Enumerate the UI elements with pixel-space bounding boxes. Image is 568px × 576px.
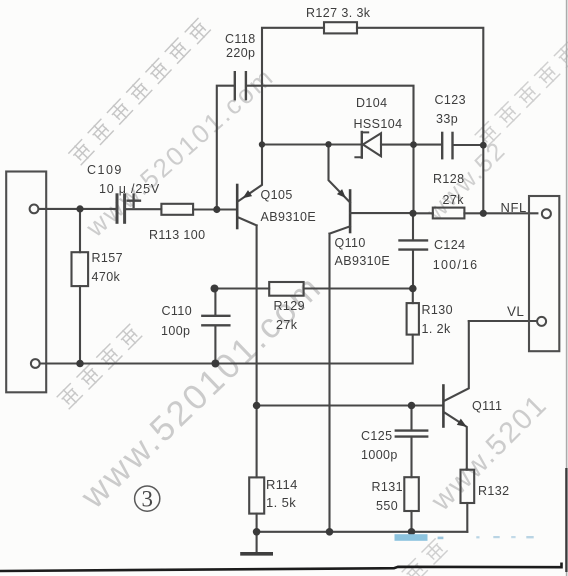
svg-text:550: 550 [376, 499, 398, 513]
wire: C118 right to drop at x413 down to diode row [247, 86, 413, 145]
page number circled 3 [135, 486, 160, 511]
svg-text:R131: R131 [372, 480, 403, 494]
transistor Q111 emitter arrow [457, 419, 467, 427]
resistor R128 [433, 208, 465, 219]
wire: R128 to NFL node to pad [464, 212, 537, 214]
junction node dots [76, 141, 487, 535]
svg-text:33p: 33p [436, 112, 458, 126]
svg-text:C123: C123 [435, 93, 466, 107]
svg-text:C110: C110 [162, 304, 193, 318]
wire: C118 branch riser (base node up to C118 row) [217, 86, 234, 210]
wire: R130 bottom to y363 row going left to pad [40, 335, 413, 364]
capacitor C123 [441, 133, 443, 158]
svg-text:R128: R128 [433, 172, 464, 186]
wire: R129 row [215, 287, 413, 289]
wire: R157 column [79, 209, 81, 364]
wire: C125 column [410, 406, 412, 478]
wire: R132 down to ground row corner [466, 503, 468, 532]
svg-text:C124: C124 [434, 238, 465, 252]
svg-text:220p: 220p [226, 46, 255, 60]
capacitor C118 [234, 72, 236, 99]
diode D104 [361, 132, 363, 158]
capacitor C125 [396, 429, 427, 431]
watermark: top-right 维修资料 partial [474, 41, 568, 148]
node: C125 top / Q111 base [408, 402, 416, 410]
svg-text:R127 3. 3k: R127 3. 3k [306, 6, 371, 20]
ground [256, 532, 258, 553]
wire: Q105 collector column down through R114 to ground row [256, 225, 258, 531]
node: Q110 emitter/diode row [325, 141, 331, 147]
svg-text:1000p: 1000p [361, 448, 398, 462]
pad: NFL [542, 209, 551, 218]
scan artifact: right page edge line [566, 0, 568, 576]
transistor Q111 [442, 386, 445, 427]
svg-text:100/16: 100/16 [433, 258, 478, 272]
svg-text:27k: 27k [276, 318, 298, 332]
svg-text:R132: R132 [478, 484, 509, 498]
svg-text:470k: 470k [92, 270, 121, 284]
resistor R114 [249, 477, 264, 513]
svg-text:100p: 100p [161, 324, 190, 338]
svg-text:R114: R114 [266, 477, 298, 492]
wire: VL row to pad [469, 320, 537, 322]
svg-text:AB9310E: AB9310E [335, 254, 391, 268]
pad: left connector top [30, 205, 39, 214]
svg-text:D104: D104 [356, 96, 387, 110]
resistor R131 [404, 477, 419, 511]
wire: Q110 collector column down to ground row [328, 234, 330, 532]
wire: junction to C123 [414, 144, 442, 146]
capacitor C110 [202, 315, 229, 317]
node: R129 row right [409, 285, 417, 293]
svg-text:1. 5k: 1. 5k [266, 495, 296, 510]
svg-text:R157: R157 [92, 251, 123, 265]
wire: R113 to Q105 base [193, 208, 236, 210]
svg-text:C109: C109 [87, 163, 123, 177]
svg-text:HSS104: HSS104 [354, 117, 403, 131]
watermark: left 家电维修 partial [56, 323, 143, 410]
svg-text:Q110: Q110 [335, 236, 366, 250]
scan artifact: cyan highlight bar [395, 534, 428, 541]
node: NFL [480, 210, 487, 217]
node: C123 right [480, 142, 487, 149]
node: ground row left [253, 528, 261, 536]
resistor R132 [461, 470, 475, 503]
wire: C123 to x483 node [454, 144, 484, 146]
svg-text:C125: C125 [361, 429, 392, 443]
node: C110 bottom [211, 360, 219, 368]
capacitor C124 [400, 239, 428, 241]
wire: base-node column through C110 [214, 289, 216, 364]
wire: y405 row Q105-collector node to Q111 base [257, 404, 443, 406]
wire: ground row [257, 531, 468, 533]
node: diode anode junction [410, 141, 417, 148]
watermark: bottom edge partial chars [401, 538, 448, 576]
svg-text:Q111: Q111 [472, 399, 502, 413]
wire: diode row left section [262, 143, 361, 145]
svg-text:R113 100: R113 100 [149, 228, 205, 242]
wire: x483 down to NFL node [482, 145, 484, 213]
left connector J-left [6, 172, 46, 393]
wire: node to R128 [413, 212, 433, 214]
node: R157 bottom [76, 360, 84, 368]
node: R157 top [76, 205, 83, 212]
svg-text:Q105: Q105 [261, 188, 293, 202]
right connector J-right [529, 196, 559, 351]
resistor R113 [161, 204, 193, 215]
node: Q105 emitter/diode row [259, 141, 265, 147]
wire: R127 left riser and top row [262, 28, 324, 145]
svg-text:R129: R129 [274, 299, 305, 313]
svg-text:VL: VL [507, 304, 524, 319]
transistor Q110 [349, 191, 352, 233]
pad: VL [537, 317, 546, 326]
node: ground row mid [326, 528, 334, 536]
capacitor C109 [116, 195, 119, 223]
transistor Q105 emitter arrow [243, 190, 253, 198]
scan artifact: bottom page edge line [0, 563, 562, 572]
svg-text:AB9310E: AB9310E [261, 210, 317, 224]
node: Q105 base [213, 206, 220, 213]
svg-text:R130: R130 [422, 303, 453, 317]
pad: left connector bottom [31, 359, 40, 368]
node: R129 row left [211, 285, 219, 293]
resistor R129 [269, 282, 303, 296]
svg-text:10 μ /25V: 10 μ /25V [99, 182, 160, 196]
wire: base node down to C124 and on to R129 row [412, 213, 414, 288]
svg-text:1. 2k: 1. 2k [422, 322, 451, 336]
wire: R131 to ground row [410, 511, 412, 532]
svg-text:27k: 27k [443, 193, 465, 207]
wire: diode anode to junction [381, 144, 414, 146]
wire: top pad to R113 [38, 208, 115, 210]
svg-text:NFL: NFL [501, 200, 527, 215]
transistor Q110 emitter arrow [337, 189, 346, 198]
resistor R130 [407, 303, 419, 335]
wire: R127 right to drop at x483 [357, 28, 483, 145]
wire: R129 row node down to R130 [412, 289, 414, 304]
resistor R157 [72, 252, 89, 286]
transistor Q105 [236, 185, 239, 228]
wire: C109 to R113 [126, 208, 161, 210]
watermark: top-left 家电维修资料网 [68, 17, 212, 167]
node: y405 row left [253, 402, 261, 410]
wire: x413 column diode row to base row [412, 145, 414, 214]
svg-text:3: 3 [141, 487, 153, 512]
node: Q110 base / R128 [409, 210, 416, 217]
node: R131 bottom [408, 528, 416, 536]
svg-text:C118: C118 [225, 32, 256, 46]
resistor R127 [324, 22, 357, 33]
